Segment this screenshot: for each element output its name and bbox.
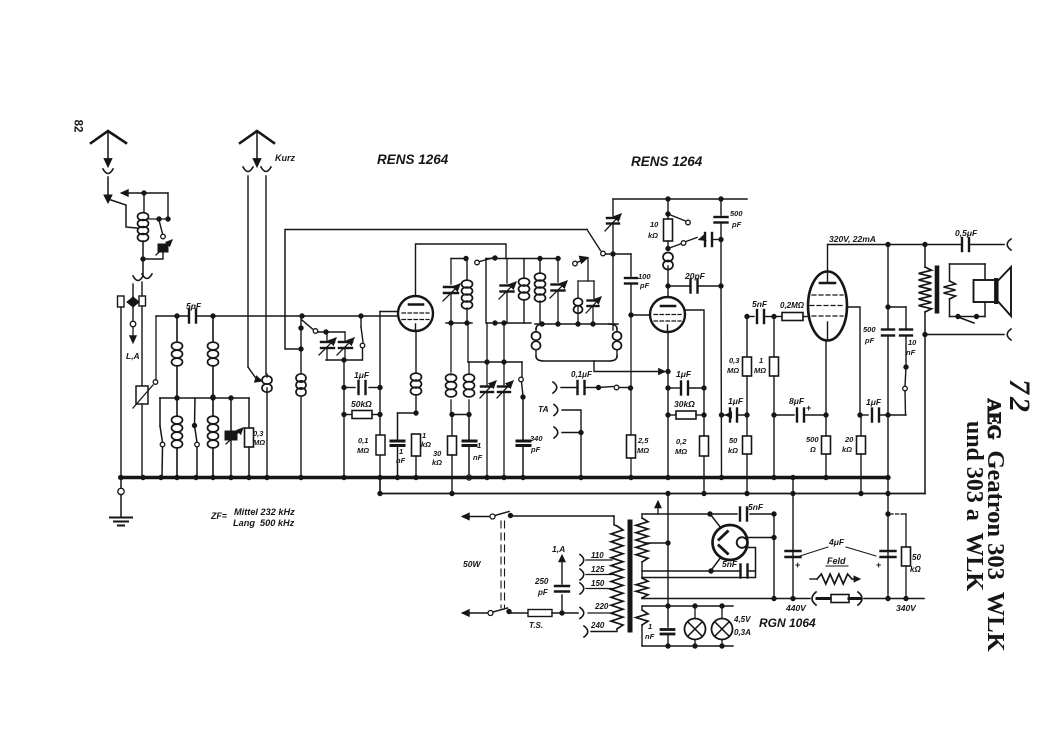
label RENS 1264 right <box>631 154 703 169</box>
label 500pF tone <box>863 325 876 345</box>
wire lowbox rail <box>468 360 522 364</box>
coil L3a <box>208 316 219 399</box>
svg-text:Feld: Feld <box>827 556 846 566</box>
svg-text:L,A: L,A <box>126 351 140 361</box>
capacitor osc coupling <box>699 233 723 246</box>
svg-text:pF: pF <box>731 220 742 229</box>
coil L9 <box>663 253 673 289</box>
coil L5a <box>446 374 457 417</box>
capacitor 5nF rect bottom <box>722 559 748 578</box>
switch S2b <box>192 398 199 477</box>
svg-text:30kΩ: 30kΩ <box>674 399 695 409</box>
capacitor 10nF tone <box>900 330 912 365</box>
svg-text:0,3A: 0,3A <box>734 628 751 637</box>
label RENS 1264 left <box>377 152 449 167</box>
label L A <box>126 351 140 361</box>
svg-text:440V: 440V <box>785 603 807 613</box>
coil L5b <box>464 362 475 417</box>
coil tap wire <box>147 217 168 221</box>
potentiometer ant <box>133 306 158 477</box>
ground bus lower <box>378 478 925 496</box>
label T.S. <box>529 621 543 630</box>
fuse T.S. <box>528 610 578 617</box>
label 1nF heater <box>645 622 655 641</box>
wire loop exit <box>594 361 670 375</box>
secondary mid winding <box>636 578 648 599</box>
svg-text:1μF: 1μF <box>866 397 882 407</box>
label 2.5Mohm <box>637 436 649 455</box>
capacitor 250pF <box>555 555 569 613</box>
secondary heater winding <box>636 606 648 646</box>
jack out bottom <box>1007 329 1011 340</box>
svg-text:30: 30 <box>433 449 442 458</box>
svg-text:250: 250 <box>534 577 549 586</box>
label 50kohm bleeder <box>910 553 921 574</box>
secondary HT winding <box>636 514 648 578</box>
svg-text:500: 500 <box>863 325 876 334</box>
transformer core <box>628 520 632 632</box>
capacitor 20pF <box>668 280 721 293</box>
wire sub branch <box>578 259 594 282</box>
label 100pF <box>638 272 651 290</box>
capacitor 0.5uF out <box>962 238 969 251</box>
resistor 30kohm det <box>668 411 704 419</box>
svg-text:MΩ: MΩ <box>727 366 739 375</box>
resistor 50kohm grid <box>344 399 382 419</box>
svg-text:100: 100 <box>638 272 651 281</box>
tube V1 internals <box>402 305 429 331</box>
resistor 0.3Mohm div <box>743 317 752 496</box>
svg-text:kΩ: kΩ <box>728 446 738 455</box>
varcap CV8 <box>586 281 601 324</box>
wire coil join <box>452 414 469 416</box>
IF loop coil left <box>532 329 541 356</box>
transformer core bar <box>935 266 939 313</box>
svg-text:10: 10 <box>908 338 917 347</box>
capacitor 1uF det <box>668 382 704 395</box>
capacitor 1uF screen <box>860 409 906 422</box>
svg-text:50kΩ: 50kΩ <box>351 399 372 409</box>
svg-text:ZF=: ZF= <box>210 511 227 521</box>
svg-text:nF: nF <box>473 453 483 462</box>
varcap CV7 <box>550 259 567 327</box>
wire filament loop <box>642 548 756 578</box>
plug/jack under A1 <box>103 159 113 196</box>
wire varcap rail <box>318 330 345 334</box>
svg-text:110: 110 <box>591 551 604 560</box>
jack cups A2 <box>243 167 271 172</box>
connector plate left <box>118 296 125 307</box>
svg-text:1μF: 1μF <box>676 369 692 379</box>
resistor 1kohm <box>412 434 421 477</box>
svg-text:8μF: 8μF <box>789 396 805 406</box>
svg-text:pF: pF <box>864 336 875 345</box>
mains contact bottom <box>462 608 528 616</box>
connector plate right <box>139 296 146 306</box>
svg-text:kΩ: kΩ <box>910 565 921 574</box>
label 10kohm <box>648 220 659 240</box>
varcap CV6 <box>499 259 516 324</box>
resistor 0.2Mohm det <box>700 436 709 456</box>
svg-text:Kurz: Kurz <box>275 153 295 163</box>
wire heater ground <box>666 494 670 649</box>
tube V4 leads <box>711 515 777 571</box>
label 440V <box>785 603 807 613</box>
lamp LP1 <box>685 606 706 646</box>
svg-text:340V: 340V <box>896 603 917 613</box>
switch S1 <box>159 220 165 239</box>
resistor 0.2Mohm grid <box>774 313 809 321</box>
wire V1 grid cap <box>416 244 507 296</box>
svg-text:0,3: 0,3 <box>729 356 740 365</box>
wire A1 to coil <box>108 199 137 228</box>
tap 150 <box>580 579 612 594</box>
wire HT top <box>613 197 747 201</box>
svg-text:kΩ: kΩ <box>432 458 442 467</box>
resistor 30kohm osc <box>448 415 457 496</box>
svg-text:MΩ: MΩ <box>253 438 265 447</box>
coil Kurz antenna lower <box>296 349 306 477</box>
wire cathode node <box>398 412 417 414</box>
tube V4 anodes <box>719 532 728 554</box>
resistor 1Mohm div <box>770 317 779 480</box>
svg-text:TA: TA <box>538 404 549 414</box>
mains contact top <box>462 512 614 520</box>
wire V3 screen <box>847 307 862 417</box>
svg-text:50W: 50W <box>463 559 481 569</box>
svg-text:kΩ: kΩ <box>842 445 852 454</box>
coil V1 cathode <box>411 373 422 415</box>
label 1uF det <box>676 369 692 379</box>
coil L3b <box>208 398 219 477</box>
jack TA <box>538 404 583 480</box>
wire main grid line <box>156 314 398 318</box>
svg-text:4,5V: 4,5V <box>733 615 751 624</box>
svg-text:0,2MΩ: 0,2MΩ <box>780 301 805 310</box>
label 30kohm det <box>674 399 695 409</box>
speaker secondary loop <box>944 264 986 317</box>
svg-text:0,1: 0,1 <box>358 436 368 445</box>
coil L2b <box>172 398 183 477</box>
svg-text:Mittel 232 kHz: Mittel 232 kHz <box>234 507 295 517</box>
resistor 10kohm <box>664 219 673 251</box>
switch S2a <box>160 398 165 477</box>
label 340V <box>896 603 917 613</box>
wire x630 down <box>628 315 633 480</box>
svg-text:1: 1 <box>759 356 763 365</box>
label Kurz <box>275 153 295 163</box>
coil L4 <box>462 259 473 324</box>
wire tank1 bottom <box>446 321 472 325</box>
lamp rail bottom <box>642 644 733 648</box>
svg-text:220: 220 <box>594 602 609 611</box>
svg-text:Ω: Ω <box>809 445 816 454</box>
svg-text:5nF: 5nF <box>752 299 768 309</box>
svg-text:RENS 1264: RENS 1264 <box>631 154 703 169</box>
capacitor 4uF b <box>876 478 896 599</box>
svg-text:kΩ: kΩ <box>421 440 431 449</box>
label 10nF tone <box>906 338 917 357</box>
ground symbol <box>110 478 132 526</box>
svg-text:MΩ: MΩ <box>357 446 369 455</box>
tube V3 internals <box>810 283 845 340</box>
tap cup 220 <box>580 608 584 619</box>
switch S8 tone <box>903 365 909 415</box>
svg-text:+: + <box>806 403 811 413</box>
svg-text:kΩ: kΩ <box>648 231 658 240</box>
coil L7 <box>535 256 546 324</box>
capacitor 0.1uF pickup <box>553 381 601 394</box>
svg-text:nF: nF <box>906 348 916 357</box>
label 0.3Mohm div <box>727 356 740 375</box>
svg-text:pF: pF <box>537 588 549 597</box>
svg-text:MΩ: MΩ <box>637 446 649 455</box>
tube V3 output <box>808 272 847 341</box>
svg-text:1: 1 <box>399 447 403 456</box>
wire V1 cathode <box>415 331 417 372</box>
wire top y193 with arrow <box>121 190 170 222</box>
varcap CV2 <box>337 332 354 360</box>
svg-text:+: + <box>795 560 800 570</box>
speaker switch <box>956 314 979 323</box>
svg-text:320V, 22mA: 320V, 22mA <box>829 234 876 244</box>
svg-text:10: 10 <box>650 220 659 229</box>
label 8uF <box>789 396 805 406</box>
tap 240 <box>584 621 605 637</box>
tube V2 internals <box>654 306 681 331</box>
antenna A2 Kurz <box>240 131 274 158</box>
wire tap rail <box>160 396 249 400</box>
resistor 0.3Mohm left <box>245 398 254 477</box>
plug pair <box>133 274 152 297</box>
wire box2 frame <box>486 256 560 325</box>
svg-text:1μF: 1μF <box>728 396 744 406</box>
IF loop coil right <box>613 329 622 356</box>
wire Kurz left <box>248 176 262 382</box>
wire to V2 grid3 <box>631 314 650 316</box>
speaker body <box>974 267 1012 316</box>
label 0.1uF <box>571 370 593 379</box>
varcap CV3 <box>443 259 460 324</box>
switch S5 osc <box>587 230 631 256</box>
field coil <box>810 556 860 584</box>
label 0.2Mohm det <box>675 437 687 456</box>
svg-text:500: 500 <box>730 209 743 218</box>
svg-text:50: 50 <box>729 436 738 445</box>
svg-text:125: 125 <box>591 565 605 574</box>
svg-text:0,2: 0,2 <box>676 437 687 446</box>
label 1uF screen <box>866 397 882 407</box>
filter rail <box>642 596 924 600</box>
ground bus main <box>119 475 890 479</box>
coil Kurz coupling <box>262 374 272 477</box>
tap 220 wire <box>588 602 612 613</box>
wire V2 grid stub <box>667 286 669 297</box>
label 320V 22mA <box>829 234 876 244</box>
label 0.3Mohm left <box>253 429 265 447</box>
capacitor 100pF <box>625 254 637 317</box>
svg-text:MΩ: MΩ <box>675 447 687 456</box>
svg-text:RENS 1264: RENS 1264 <box>377 152 449 167</box>
switch S4b <box>573 256 588 266</box>
junction blob A1 <box>104 195 112 203</box>
wire x468 link <box>467 323 469 362</box>
svg-text:500: 500 <box>806 435 819 444</box>
capacitor 1nF a <box>391 413 404 477</box>
label 500pF bypass <box>730 209 743 229</box>
wire left ground leg <box>120 307 122 477</box>
label 500ohm <box>806 435 819 454</box>
trimmer C-pad <box>225 398 243 477</box>
svg-text:4μF: 4μF <box>828 537 845 547</box>
wire speaker return <box>925 334 1004 336</box>
capacitor 500pF bypass <box>715 199 728 288</box>
wire x888 down <box>886 245 890 478</box>
svg-text:1: 1 <box>477 441 481 450</box>
svg-text:150: 150 <box>591 579 605 588</box>
switch S4c <box>519 362 526 399</box>
tap 110 <box>580 551 612 566</box>
title AEG Geatron 303 WLK <box>982 398 1009 651</box>
label 50W <box>463 559 481 569</box>
label 0.2Mohm grid <box>780 301 805 310</box>
wire node down x344 <box>342 360 346 477</box>
wire V3 anode top <box>827 245 829 284</box>
capacitor 5nF rect top <box>740 502 764 521</box>
svg-text:72: 72 <box>1003 379 1036 415</box>
capacitor 1uF grid <box>344 370 382 394</box>
svg-text:RGN 1064: RGN 1064 <box>759 616 816 630</box>
wire box2 drop <box>487 323 504 362</box>
wire down to plug <box>142 259 144 276</box>
resistor 50kohm bleeder <box>890 514 911 599</box>
svg-text:340: 340 <box>530 434 543 443</box>
resistor 50kohm af <box>743 436 752 454</box>
label 30kohm osc <box>432 449 442 467</box>
varcap CV5 <box>497 362 513 480</box>
label 1nF b <box>473 441 483 462</box>
wire x451 link <box>450 323 452 372</box>
label 20pF <box>684 271 706 281</box>
svg-text:nF: nF <box>396 456 406 465</box>
capacitor 1nF heater <box>661 630 674 635</box>
wire HT top rail <box>642 512 776 516</box>
antenna coil L1 <box>138 213 149 259</box>
wire tone branch <box>888 307 906 328</box>
label 50kohm af <box>728 436 738 455</box>
mains link dashed <box>501 521 505 608</box>
capacitor 5pF <box>186 301 202 323</box>
svg-text:+: + <box>876 560 881 570</box>
capacitor 500pF tone <box>882 330 894 336</box>
label 0.1Mohm <box>357 436 369 455</box>
resistor 0.1Mohm <box>376 435 385 455</box>
wire Kurz right <box>265 176 267 374</box>
jack TA2 <box>554 427 581 438</box>
label 1uF af <box>728 396 744 406</box>
IF loop frame <box>536 324 617 361</box>
coil L2a <box>172 316 183 400</box>
svg-text:5nF: 5nF <box>748 502 764 512</box>
tube V2 RENS1264 <box>650 297 685 332</box>
resistor 20kohm <box>857 415 866 496</box>
output transformer primary <box>919 245 932 337</box>
label ZF <box>210 507 295 528</box>
trimmer osc <box>605 199 621 330</box>
svg-text:nF: nF <box>645 632 655 641</box>
plug A2 <box>253 159 261 167</box>
svg-text:50: 50 <box>912 553 921 562</box>
lamp LP2 <box>712 606 733 646</box>
label lamps <box>733 615 751 637</box>
switch S3b <box>360 316 365 360</box>
choke <box>812 592 862 605</box>
switch S3a <box>299 316 318 349</box>
label 1kohm <box>421 431 431 449</box>
wire x793 link <box>792 478 794 494</box>
svg-text:82: 82 <box>72 120 84 133</box>
wire HT bottom rail <box>642 569 756 573</box>
svg-text:240: 240 <box>590 621 605 630</box>
tube V4 RGN1064 <box>713 525 748 560</box>
small circle contact <box>130 321 137 343</box>
label 20kohm <box>842 435 854 454</box>
capacitor 1uF af <box>722 409 748 422</box>
title und 303 a WLK <box>961 421 987 592</box>
wire x925 to bus <box>924 335 926 494</box>
capacitor 340pF <box>517 397 530 480</box>
wire pot wiper up <box>155 316 157 380</box>
label 0.5uF <box>955 228 978 238</box>
label 340pF <box>530 434 543 454</box>
resistor 500ohm <box>822 436 831 454</box>
resistor 2.5Mohm <box>627 435 636 458</box>
coil L8 <box>574 281 583 326</box>
capacitor 5nF coupling <box>745 310 776 323</box>
antenna A1 <box>91 131 126 158</box>
svg-text:20: 20 <box>844 435 854 444</box>
jack out top <box>1007 239 1011 250</box>
page number 82 <box>72 120 84 133</box>
capacitor 1nF b <box>463 415 476 481</box>
svg-text:0,1μF: 0,1μF <box>571 370 593 379</box>
svg-text:T.S.: T.S. <box>529 621 543 630</box>
wire rect out <box>772 514 776 601</box>
svg-text:1: 1 <box>422 431 426 440</box>
lamp rail top <box>642 604 733 608</box>
wire V2 cathode <box>666 332 670 480</box>
label 250pF <box>534 577 549 597</box>
capacitor 4uF a <box>786 475 801 598</box>
svg-text:5pF: 5pF <box>186 301 202 311</box>
wire varcap bottom rail <box>326 358 362 362</box>
svg-text:0,3: 0,3 <box>253 429 264 438</box>
connector diamond <box>127 297 139 321</box>
svg-text:Lang 500 kHz: Lang 500 kHz <box>233 518 295 528</box>
switch S7 pickup <box>599 385 631 390</box>
svg-text:und 303 a WLK: und 303 a WLK <box>961 421 987 592</box>
svg-text:1μF: 1μF <box>354 370 370 380</box>
svg-text:1,A: 1,A <box>552 544 565 554</box>
wire HT 320V <box>828 242 1005 246</box>
wire tank rail1 <box>451 256 468 260</box>
label 5nF coupling <box>752 299 768 309</box>
transformer primary <box>591 516 623 632</box>
wire grid leak x380 <box>378 312 398 494</box>
svg-text:MΩ: MΩ <box>754 366 766 375</box>
svg-text:2,5: 2,5 <box>637 436 649 445</box>
label 1Mohm div <box>754 356 766 375</box>
